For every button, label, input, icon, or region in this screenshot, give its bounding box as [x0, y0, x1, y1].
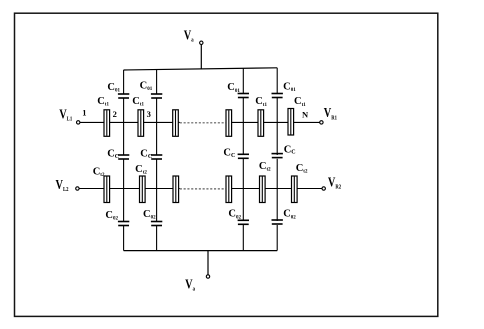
svg-text:2: 2	[113, 109, 117, 119]
svg-text:3: 3	[147, 109, 151, 119]
svg-text:1: 1	[82, 107, 86, 117]
svg-text:N: N	[302, 109, 309, 119]
